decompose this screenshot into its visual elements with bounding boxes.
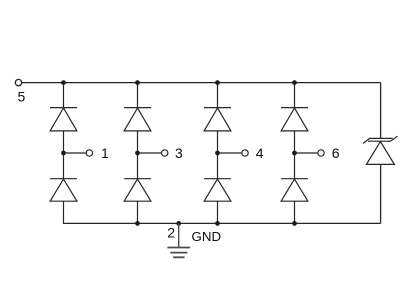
diode D3 bottom (triangle) — [204, 179, 231, 201]
node dot M2 — [135, 151, 140, 156]
node dot T4 — [292, 80, 297, 85]
svg-text:3: 3 — [175, 145, 183, 161]
diode D2 bottom (cathode bar) — [124, 178, 151, 180]
node dot T1 — [61, 80, 66, 85]
terminal pin 1 — [86, 150, 92, 156]
wire branch3 bottom — [217, 201, 219, 223]
svg-text:6: 6 — [332, 145, 340, 161]
wire branch1 top — [63, 83, 65, 108]
wire right rail top — [380, 83, 382, 139]
wire branch3 top — [217, 83, 219, 108]
wire stub node 1 — [64, 152, 87, 154]
node dot B2 — [135, 221, 140, 226]
svg-text:4: 4 — [256, 145, 264, 161]
node dot M4 — [292, 151, 297, 156]
wire stub node 4 — [218, 152, 242, 154]
wire branch4 bottom — [294, 201, 296, 223]
node dot B3 — [215, 221, 220, 226]
wire top rail — [22, 82, 381, 84]
wire branch3 mid — [217, 131, 219, 179]
diode D1 top (triangle) — [50, 108, 77, 131]
diode D3 top (triangle) — [204, 108, 231, 131]
diode D3 top (cathode bar) — [204, 107, 231, 109]
terminal pin 6 — [318, 150, 324, 156]
ground — [167, 223, 190, 257]
diode pair branch 4 — [281, 83, 324, 224]
svg-text:5: 5 — [18, 88, 26, 104]
diode D4 bottom (triangle) — [281, 179, 308, 201]
diode D2 bottom (triangle) — [124, 179, 151, 201]
wire branch2 top — [137, 83, 139, 108]
diode D1 bottom (cathode bar) — [50, 178, 77, 180]
wire bottom rail — [63, 222, 381, 224]
node dot T2 — [135, 80, 140, 85]
wire branch2 bottom — [137, 201, 139, 223]
node dot M1 — [61, 151, 66, 156]
zener diode Z1 — [363, 136, 398, 164]
node dot T3 — [215, 80, 220, 85]
diode pair branch 1 — [50, 83, 93, 224]
ground bar 3 — [173, 256, 185, 258]
wire branch4 top — [294, 83, 296, 108]
terminal pin 5 — [15, 79, 21, 85]
diode D4 top (cathode bar) — [281, 107, 308, 109]
junction dots top rail — [61, 80, 297, 226]
wire right rail bottom — [380, 164, 382, 223]
diode pair branch 2 — [124, 83, 168, 224]
node dot B4 — [292, 221, 297, 226]
svg-text:1: 1 — [101, 145, 109, 161]
zener triangle — [366, 142, 394, 165]
svg-text:2: 2 — [167, 224, 175, 240]
diode D3 bottom (cathode bar) — [204, 178, 231, 180]
diode D2 top (triangle) — [124, 108, 151, 131]
terminal pin 4 — [242, 150, 248, 156]
diode D1 top (cathode bar) — [50, 107, 77, 109]
ground bar 1 — [167, 247, 190, 249]
wire branch2 mid — [137, 131, 139, 179]
wire stub node 3 — [138, 152, 162, 154]
node dot M3 — [215, 151, 220, 156]
wire branch4 mid — [294, 131, 296, 179]
zener cathode bar lower — [368, 136, 398, 141]
wire branch1 mid — [63, 131, 65, 179]
diode D2 top (cathode bar) — [124, 107, 151, 109]
diode D1 bottom (triangle) — [50, 179, 77, 201]
node dot GND — [176, 221, 181, 226]
svg-text:GND: GND — [192, 229, 222, 244]
ground stem — [178, 223, 180, 247]
zener cathode bar upper — [363, 138, 393, 143]
wire branch1 bottom — [63, 201, 65, 223]
diode D4 top (triangle) — [281, 108, 308, 131]
wire stub node 6 — [295, 152, 318, 154]
diode pair branch 3 — [204, 83, 248, 224]
terminal pin 3 — [162, 150, 168, 156]
ground bar 2 — [170, 252, 187, 254]
diode D4 bottom (cathode bar) — [281, 178, 308, 180]
